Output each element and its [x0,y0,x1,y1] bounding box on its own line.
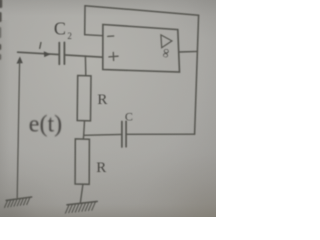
node A junction down [84,56,86,75]
wire feedback left vertical [84,6,86,35]
ground left bar [6,197,31,200]
wire node B to R2 [82,135,84,139]
ground left hatching [5,198,30,208]
paper grain [0,0,216,217]
wire input terminal [18,52,60,54]
op-amp U1 box [103,25,180,73]
op-amp output wire [179,50,197,53]
ground middle hatching [65,202,95,213]
op-amp minus input symbol [108,35,114,37]
resistor R2 box [75,139,89,184]
label i [40,43,41,49]
page edge marks (left binding edge) [0,0,2,60]
resistor R1 box [77,76,91,121]
ground middle bar [67,201,97,204]
capacitor C plates [121,122,123,148]
current arrow i [44,51,51,57]
wire output right vertical [195,15,199,134]
wire to minus input [85,35,103,36]
wire node B to capacitor C [84,133,122,136]
capacitor C2 plates [58,43,60,65]
op-amp triangle symbol [161,35,172,48]
page background [0,0,216,217]
wire feedback top [85,6,199,16]
wire R2 to ground [80,184,83,203]
op-amp plus input symbol [109,52,118,60]
label e(t) [29,112,62,138]
source arrow e(t) [17,56,23,63]
labels [54,19,72,41]
wire C2 to op-amp plus input [64,55,102,57]
wire source vertical [17,62,19,198]
wire R1 to node B [83,121,86,136]
wire C to output node [126,133,195,135]
